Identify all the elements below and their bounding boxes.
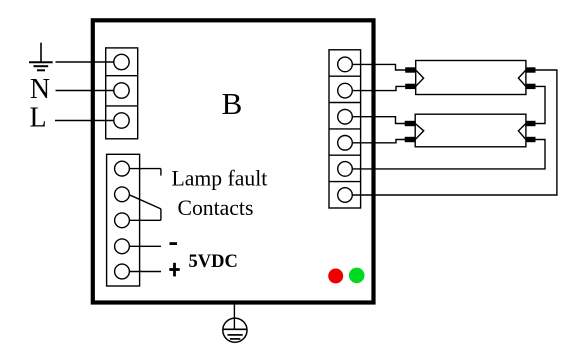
TB3 terminal 6: [338, 188, 353, 203]
terminal block TB3 (lamp output, 6-way): [329, 50, 361, 208]
wire: TB3-5 to lamp LP2 bottom-right pin: [352, 140, 545, 169]
LP2 pin top-right: [526, 121, 536, 126]
wire: N to TB1-2: [56, 90, 114, 92]
LED D1 (red): [328, 269, 343, 284]
TB3 terminal 4: [338, 136, 353, 151]
earth ground symbol (input): [29, 43, 53, 71]
wire: TB3-3 to lamp LP2 top-left pin: [352, 117, 405, 124]
TB2 terminal 4: [115, 239, 130, 254]
wire: TB3-1 to lamp LP1 top-left pin: [352, 64, 405, 70]
wire: TB2-4 to minus: [130, 245, 162, 247]
svg-text:L: L: [29, 103, 46, 134]
TB3 terminal 3: [338, 109, 353, 124]
wire: TB2-5 to plus: [130, 271, 162, 273]
TB2 terminal 5: [115, 264, 130, 279]
terminal block TB1 (mains input, 3-way): [106, 48, 138, 139]
TB1 terminal 1 (earth): [114, 54, 129, 69]
svg-text:Lamp fault: Lamp fault: [172, 167, 268, 191]
label plus (+): [169, 263, 179, 277]
TB2 terminal 2: [115, 187, 130, 202]
LP1 pin top-right: [526, 67, 536, 72]
LP2 pin bottom-left: [405, 137, 416, 142]
label minus (-): [170, 242, 178, 245]
wire: TB3-6 to lamp LP1 top-right pin: [352, 70, 557, 195]
relay contact K1 NO side (lamp fault): [130, 169, 161, 176]
protective earth symbol (circled ground): [223, 318, 248, 342]
LED D2 (green): [349, 268, 365, 284]
TB3 terminal 1: [338, 57, 353, 72]
svg-text:B: B: [222, 86, 243, 121]
LP1 pin bottom-right: [526, 84, 536, 89]
wire: box to protective earth: [233, 303, 235, 329]
TB1 terminal 2 (N): [114, 83, 129, 98]
TB3 terminal 2: [338, 83, 353, 98]
svg-text:5VDC: 5VDC: [189, 252, 238, 272]
wire: TB2-3 to contact: [130, 219, 161, 221]
TB2 terminal 1: [115, 161, 130, 176]
wire: TB3-4 to lamp LP2 bottom-left pin: [352, 140, 405, 143]
terminal block TB2 (lamp fault / 5VDC, 5-way): [107, 154, 140, 286]
relay contact K1 blade (common): [129, 195, 161, 221]
LP1 pin bottom-left: [405, 84, 416, 89]
LP1 pin top-left: [405, 67, 416, 72]
fluorescent lamp LP2: [415, 114, 526, 147]
LP2 pin top-left: [405, 121, 416, 126]
LP2 pin bottom-right: [526, 137, 536, 142]
svg-text:Contacts: Contacts: [178, 196, 254, 220]
fluorescent lamp LP1: [416, 61, 526, 95]
wire: TB3-2 to lamp LP1 bottom-left pin: [352, 86, 405, 90]
wire: earth to TB1-1: [56, 61, 114, 63]
TB1 terminal 3 (L): [114, 113, 129, 128]
TB3 terminal 5: [338, 162, 353, 177]
wire: L to TB1-3: [55, 120, 114, 122]
ballast enclosure box B: [93, 20, 374, 302]
svg-text:N: N: [30, 74, 50, 105]
TB2 terminal 3: [115, 213, 130, 228]
wire: LP1 bottom-right pin to LP2 top-right pin: [536, 86, 546, 123]
